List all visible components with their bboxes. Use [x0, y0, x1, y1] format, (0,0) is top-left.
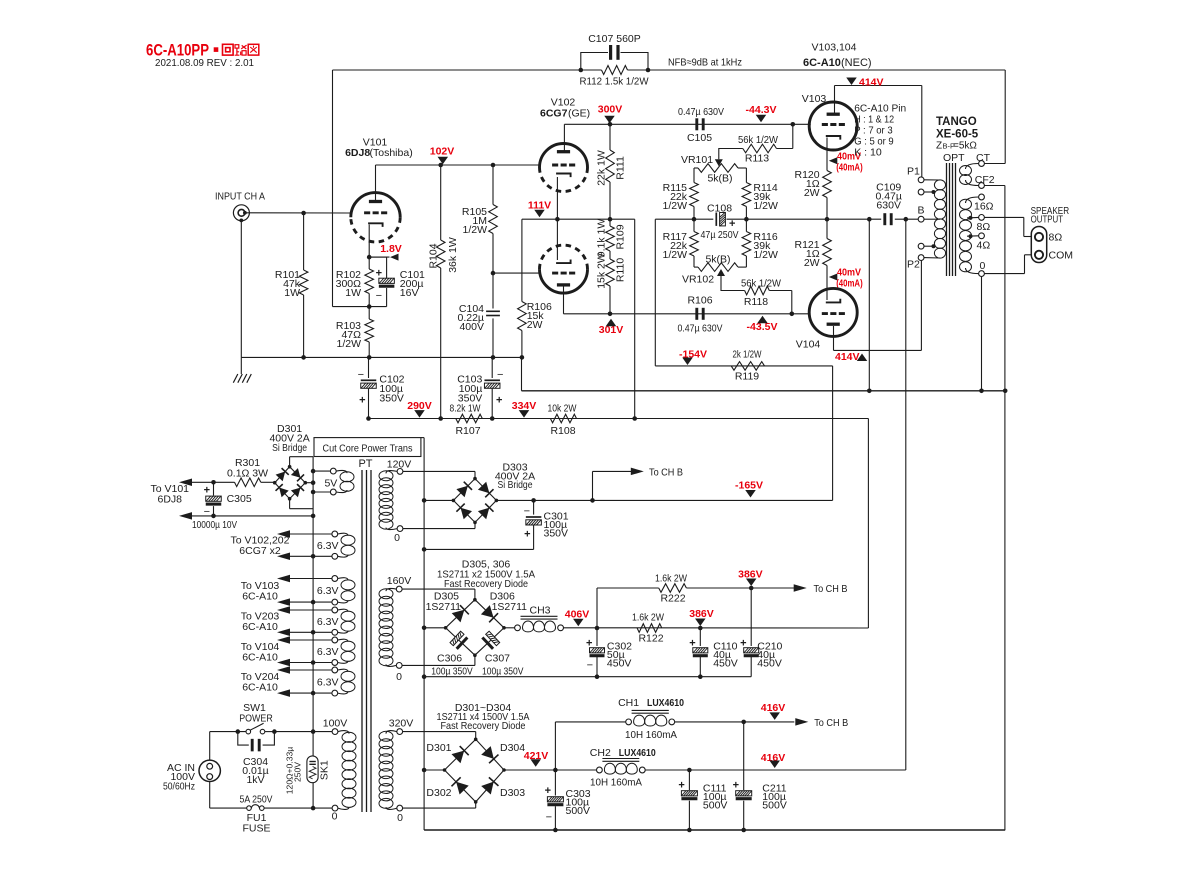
capacitor C303 — [545, 770, 564, 830]
label TANGO — [936, 116, 977, 128]
label 160V zero — [396, 671, 402, 683]
svg-text:CH2: CH2 — [590, 747, 611, 759]
label heater dest 3 — [241, 611, 280, 634]
svg-text:D304: D304 — [500, 742, 525, 754]
label R108 value — [548, 403, 577, 415]
label R109 value rotated — [595, 219, 607, 258]
label To V101 — [150, 483, 189, 506]
resistor R108 — [550, 414, 576, 423]
rectifier D303 bridge — [452, 477, 499, 524]
node heater common 3 — [311, 630, 316, 635]
svg-text:R107: R107 — [455, 425, 480, 437]
wire 320V zero to bridge — [403, 802, 476, 808]
tube V104 6C-A10 — [809, 288, 857, 336]
svg-text:R106: R106 — [687, 295, 712, 307]
marker -44.3V — [746, 104, 777, 122]
capacitor C104 — [486, 311, 500, 357]
svg-text:2W: 2W — [527, 319, 543, 331]
capacitor C101 — [376, 257, 395, 307]
node R104 bottom — [438, 416, 443, 421]
capacitor C109 — [885, 213, 891, 225]
wire input to grid — [245, 212, 351, 214]
node cap rail left — [422, 674, 427, 679]
connector AC plug — [199, 760, 220, 781]
wire cathode branch — [868, 219, 870, 391]
node R222 branch — [595, 626, 600, 631]
marker 1.8V — [369, 243, 402, 261]
node C110 top — [698, 626, 703, 631]
label R116 — [753, 231, 778, 261]
terminal 8ohm tap — [967, 233, 984, 239]
node R118 grid junction — [790, 312, 795, 317]
marker -154V — [679, 349, 707, 366]
wire V104 plate to P2 — [834, 261, 922, 351]
svg-text:10k 2W: 10k 2W — [548, 403, 577, 415]
capacitor C211 — [733, 722, 752, 830]
label V101 — [363, 137, 388, 149]
wire CH1 feed — [555, 722, 625, 770]
svg-text:1/2W: 1/2W — [662, 249, 687, 261]
resistor R107 — [456, 414, 483, 423]
svg-text:Si Bridge: Si Bridge — [498, 479, 533, 491]
wire heater feed 1 lower — [277, 553, 332, 561]
potentiometer VR101 — [694, 164, 746, 173]
svg-text:500V: 500V — [703, 800, 728, 812]
label 120V — [387, 459, 412, 471]
svg-text:0: 0 — [394, 532, 400, 544]
svg-text:C305: C305 — [227, 493, 252, 505]
wire 5V terminal taps — [311, 469, 331, 495]
svg-text:1S2711: 1S2711 — [426, 601, 462, 613]
svg-text:250V: 250V — [292, 762, 302, 782]
wire R222 to CH B — [751, 584, 807, 592]
wire bridge to CH3 — [504, 627, 515, 629]
svg-text:5A 250V: 5A 250V — [240, 794, 273, 806]
svg-text:-165V: -165V — [735, 480, 763, 492]
wire R222 line — [597, 587, 659, 589]
resistor R119 — [731, 362, 764, 371]
svg-text:0: 0 — [980, 260, 986, 272]
label 6.3V winding 4 — [317, 646, 339, 658]
svg-text:V104: V104 — [796, 339, 821, 351]
wire D301 bridge minus to common — [424, 769, 444, 771]
wire VR left rail top — [693, 168, 695, 183]
capacitor C110 — [689, 628, 708, 677]
wire C301 bottom return — [424, 548, 533, 550]
wire C109 to B terminal — [895, 218, 918, 220]
node V102b grid junction — [491, 271, 496, 276]
svg-text:0.1Ω 3W: 0.1Ω 3W — [227, 468, 268, 480]
svg-text:100V: 100V — [323, 718, 348, 730]
wire To CH B branch 1 — [593, 468, 644, 501]
label R101 — [275, 269, 301, 299]
transformer OPT secondary winding — [960, 197, 979, 274]
label Cut Core Power Trans box — [314, 438, 421, 457]
wire -165V line — [496, 499, 832, 501]
spark killer SK1 — [307, 756, 318, 783]
node C301 top — [531, 498, 536, 503]
rectifier D305/D306 + C306/C307 — [444, 598, 506, 657]
node R102/C101 bottom junction — [367, 304, 372, 309]
label C109 — [875, 182, 902, 212]
svg-text:V103: V103 — [802, 93, 827, 105]
svg-text:414V: 414V — [859, 77, 884, 89]
svg-text:Fast Recovery Diode: Fast Recovery Diode — [441, 720, 526, 732]
svg-text:47µ 250V: 47µ 250V — [701, 229, 739, 241]
svg-text:1/2W: 1/2W — [753, 249, 778, 261]
capacitor C305 — [204, 482, 222, 518]
marker 111V — [528, 200, 551, 218]
label D305 306 header — [437, 559, 535, 591]
label D304 diode — [500, 742, 525, 754]
svg-text:D302: D302 — [426, 787, 451, 799]
svg-text:CH1: CH1 — [618, 697, 639, 709]
label heater dest 5 — [241, 671, 280, 694]
svg-text:R222: R222 — [660, 593, 685, 605]
node SW1 left — [236, 729, 241, 734]
wire CF2 down right border — [984, 186, 1005, 831]
svg-text:16V: 16V — [400, 287, 419, 299]
svg-text:2W: 2W — [804, 257, 820, 269]
label C105 — [687, 132, 712, 144]
label FU1 — [242, 812, 270, 835]
svg-text:36k 1W: 36k 1W — [447, 237, 459, 273]
fuse FU1 — [247, 805, 264, 811]
marker 290V — [407, 400, 432, 418]
node R104 top — [438, 163, 443, 168]
svg-text:6CG7 x2: 6CG7 x2 — [239, 545, 281, 557]
transformer PT 5V winding — [330, 468, 354, 495]
wire CT to NFB — [984, 163, 1005, 165]
connector speaker jack — [1031, 227, 1046, 263]
svg-text:R108: R108 — [550, 425, 575, 437]
label C302 — [607, 641, 632, 670]
label 5V — [324, 478, 337, 490]
node heater common 5 — [311, 691, 316, 696]
svg-text:1W: 1W — [284, 287, 300, 299]
wire 406V line — [564, 627, 869, 629]
label 6.3V winding 3 — [317, 616, 339, 628]
svg-text:OPT: OPT — [943, 152, 965, 164]
wire CH2 out to B+ — [645, 769, 906, 771]
label C105 value — [678, 106, 724, 118]
marker 301V — [599, 319, 624, 336]
label R119 — [735, 371, 759, 383]
label SK1 rotated — [318, 760, 330, 780]
wire heater feed 2 upper — [277, 575, 332, 583]
svg-text:0.47µ 630V: 0.47µ 630V — [678, 323, 723, 335]
svg-text:6.3V: 6.3V — [317, 585, 339, 597]
svg-text:15k 2W: 15k 2W — [595, 253, 607, 289]
label R121 — [794, 239, 819, 269]
wire 120V to bridge — [403, 471, 475, 478]
label FU1 rating — [240, 794, 273, 806]
wire heater feed 5 upper — [277, 666, 332, 674]
label COM jack — [1049, 250, 1074, 262]
node D301 minus — [422, 768, 427, 773]
svg-text:8Ω: 8Ω — [977, 221, 991, 233]
svg-text:10000µ 10V: 10000µ 10V — [192, 519, 237, 531]
marker 386V on R222 line — [738, 569, 763, 587]
svg-text:6C-A10: 6C-A10 — [242, 651, 278, 663]
label CH1 value — [625, 729, 677, 741]
ground symbol — [233, 357, 251, 382]
node To CH B branch — [590, 498, 595, 503]
label R122 value — [632, 612, 664, 624]
svg-text:To CH B: To CH B — [649, 467, 683, 479]
label 120V zero — [394, 532, 400, 544]
svg-text:120V: 120V — [387, 459, 412, 471]
svg-text:0: 0 — [332, 811, 338, 823]
label R105 — [462, 206, 487, 236]
wire 5V bridge out — [305, 480, 315, 485]
node C111 bottom — [687, 828, 692, 833]
wire V102b plate down — [563, 286, 565, 314]
label C108 — [707, 203, 732, 215]
VR102 wiper — [717, 269, 745, 291]
svg-text:100µ 350V: 100µ 350V — [482, 666, 524, 678]
svg-text:INPUT CH A: INPUT CH A — [215, 191, 265, 203]
transformer PT 6.3V winding 1 — [332, 531, 355, 559]
svg-text:1/2W: 1/2W — [753, 200, 778, 212]
svg-text:C306: C306 — [437, 653, 462, 665]
capacitor C105 — [697, 118, 703, 130]
node D303 minus — [422, 498, 427, 503]
label XE-60-5 — [936, 129, 979, 141]
tube V101 6DJ8 — [351, 193, 400, 242]
label 8ohm jack — [1049, 232, 1063, 244]
svg-text:6DJ8: 6DJ8 — [345, 147, 370, 159]
capacitor C210 — [740, 588, 759, 677]
wire R102/C101 top link — [369, 256, 386, 258]
wire heater feed 5 lower — [277, 689, 332, 697]
label D305 — [426, 591, 462, 614]
node R109 top — [608, 217, 613, 222]
svg-text:50/60Hz: 50/60Hz — [163, 781, 195, 793]
label R301 — [235, 457, 260, 469]
wire C108 link right — [727, 218, 747, 220]
node C211 top — [741, 720, 746, 725]
svg-text:6C-A10: 6C-A10 — [242, 590, 278, 602]
label R103 — [336, 320, 361, 350]
label C111 — [703, 783, 728, 812]
svg-text:P1: P1 — [907, 166, 920, 178]
svg-text:(Toshiba): (Toshiba) — [370, 147, 413, 159]
svg-text:102V: 102V — [430, 145, 455, 157]
svg-text:Z: Z — [936, 141, 942, 152]
VR101 wiper — [715, 149, 743, 167]
node C108 left — [692, 217, 697, 222]
node R105 top — [491, 163, 496, 168]
resistor R109 — [606, 219, 615, 251]
label 16ohm — [974, 201, 994, 213]
label R122 — [638, 633, 663, 645]
transformer OPT primary winding — [924, 180, 946, 258]
resistor R113 — [743, 124, 793, 153]
label C306 — [437, 653, 462, 665]
label V102 type — [540, 108, 590, 120]
capacitor C111 — [678, 770, 697, 830]
wire VR right rail top — [745, 168, 747, 183]
label R301 value — [227, 468, 268, 480]
tube V102 upper triode — [540, 144, 588, 192]
label R106 15k — [527, 301, 552, 331]
label C301 — [544, 511, 569, 540]
label C303 — [566, 788, 591, 817]
svg-text:D301: D301 — [426, 742, 451, 754]
marker 414V top — [846, 77, 883, 89]
svg-text:500V: 500V — [762, 800, 787, 812]
wire COM to 0 — [984, 255, 1031, 274]
inductor CH2 — [597, 759, 646, 775]
label C304 — [242, 756, 269, 786]
svg-text:+: + — [376, 268, 382, 280]
wire heater DC minus line — [179, 512, 313, 520]
potentiometer VR102 — [694, 256, 746, 271]
svg-text:2021.08.09 REV : 2.01: 2021.08.09 REV : 2.01 — [155, 57, 254, 69]
wire 334V to 406V vertical — [867, 419, 869, 629]
svg-text:To CH B: To CH B — [814, 583, 848, 595]
label heater dest 4 — [241, 641, 280, 664]
wire 320V to bridge — [403, 732, 476, 740]
label NFB amount — [668, 57, 742, 69]
wire B+ dropper line — [369, 418, 869, 420]
label R104 value rotated — [447, 237, 459, 273]
wire cathode B line — [746, 218, 881, 220]
svg-text:LUX4610: LUX4610 — [619, 747, 656, 759]
wire CH1 out — [675, 718, 809, 726]
svg-text:1.6k 2W: 1.6k 2W — [655, 573, 687, 585]
resistor R114 — [742, 183, 751, 220]
svg-text:XE-60-5: XE-60-5 — [936, 129, 979, 141]
label C106 designator — [687, 295, 712, 307]
wire NFB top from V101 cathode node — [333, 69, 581, 71]
svg-text:VR101: VR101 — [681, 154, 713, 166]
node C108 right — [744, 217, 749, 222]
resistor R121 — [823, 219, 832, 265]
svg-text:8Ω: 8Ω — [1049, 232, 1063, 244]
svg-text:40mV: 40mV — [837, 268, 861, 279]
svg-text:2k 1/2W: 2k 1/2W — [733, 349, 762, 361]
label R107 — [455, 425, 480, 437]
resistor R122 — [637, 624, 662, 633]
label C305 — [227, 493, 252, 505]
terminal 16ohm tap — [967, 215, 984, 221]
transformer OPT primary terminals — [918, 177, 924, 261]
wire V103 plate up — [834, 86, 836, 114]
svg-text:C108: C108 — [707, 203, 732, 215]
marker 416V CH1 — [761, 702, 786, 720]
resistor R104 — [436, 165, 445, 419]
resistor R103 — [365, 307, 374, 358]
svg-text:10H 160mA: 10H 160mA — [590, 777, 642, 789]
label C307 — [485, 653, 510, 665]
connector RCA jack input — [233, 205, 249, 223]
label 10000u 10V — [192, 519, 237, 531]
transformer PT 6.3V winding 2 — [332, 576, 355, 605]
node B+ branch — [904, 217, 909, 222]
label V104 — [796, 339, 821, 351]
tube V102 lower triode — [540, 245, 588, 293]
label VR102 — [682, 274, 714, 286]
node x634 bottom — [632, 416, 637, 421]
resistor R301 — [235, 478, 274, 487]
svg-text:160V: 160V — [387, 575, 412, 587]
svg-text:320V: 320V — [389, 718, 414, 730]
svg-text:−: − — [497, 369, 503, 381]
terminal CT — [979, 161, 985, 167]
label R117 — [662, 231, 687, 261]
node C302 bottom — [595, 674, 600, 679]
label R114 — [753, 182, 778, 212]
label C106 value — [678, 323, 723, 335]
svg-text:450V: 450V — [607, 658, 632, 670]
node R105/C103 ground — [491, 355, 496, 360]
svg-text:6DJ8: 6DJ8 — [157, 494, 182, 506]
svg-text:500V: 500V — [566, 805, 591, 817]
capacitor C107 — [611, 45, 618, 60]
svg-text:22k 1W: 22k 1W — [595, 150, 607, 186]
resistor R101 — [299, 213, 308, 357]
label To CH B 3 — [814, 717, 848, 729]
svg-text:+: + — [204, 485, 210, 497]
svg-text:450V: 450V — [713, 658, 738, 670]
node 0-tap on rail — [979, 389, 984, 394]
svg-text:R118: R118 — [744, 296, 768, 308]
svg-text:C307: C307 — [485, 653, 510, 665]
wire 300V line — [564, 123, 810, 125]
wire R119 down to -165V — [832, 366, 834, 501]
wire V102b cathode up — [556, 219, 558, 260]
wire filter cap ground rail — [424, 676, 751, 678]
label R102 — [336, 269, 362, 299]
svg-text:1kV: 1kV — [246, 774, 264, 786]
wire heater feed 4 upper — [277, 636, 332, 644]
label V103 — [802, 93, 827, 105]
svg-text:450V: 450V — [757, 658, 782, 670]
wire V102a plate up — [563, 124, 565, 152]
wire V102a cathode down — [556, 177, 558, 219]
node R120/R121 junction — [825, 217, 830, 222]
wire heater feed 4 lower — [277, 659, 332, 667]
svg-text:K : 10: K : 10 — [854, 147, 882, 159]
svg-text:1/2W: 1/2W — [662, 200, 687, 212]
label C108 value — [701, 229, 739, 241]
resistor R105 — [489, 165, 498, 309]
svg-text:B: B — [918, 205, 925, 217]
label ZB-P — [936, 141, 977, 152]
svg-text:R110: R110 — [614, 258, 626, 282]
wire AC hot to 100V — [274, 731, 332, 733]
label 6.3V winding 2 — [317, 585, 339, 597]
wire D303 minus to common — [424, 499, 453, 501]
node cathode branch on rail — [867, 389, 872, 394]
label CH3 — [529, 605, 550, 617]
svg-text:+: + — [733, 780, 739, 792]
wire AC hot — [210, 732, 246, 761]
svg-text:TANGO: TANGO — [936, 116, 977, 128]
label C307 value — [482, 666, 524, 678]
resistor R120 — [823, 171, 832, 220]
wire PT box to common — [421, 437, 424, 439]
node SK1 bottom — [311, 806, 316, 811]
svg-text:8.2k 1W: 8.2k 1W — [450, 403, 481, 415]
svg-text:-44.3V: -44.3V — [746, 104, 777, 116]
svg-text:1.6k 2W: 1.6k 2W — [632, 612, 664, 624]
svg-text:(40mA): (40mA) — [836, 163, 863, 174]
svg-text:R112 1.5k 1/2W: R112 1.5k 1/2W — [580, 76, 649, 88]
rectifier D301 5V bridge — [273, 465, 307, 501]
